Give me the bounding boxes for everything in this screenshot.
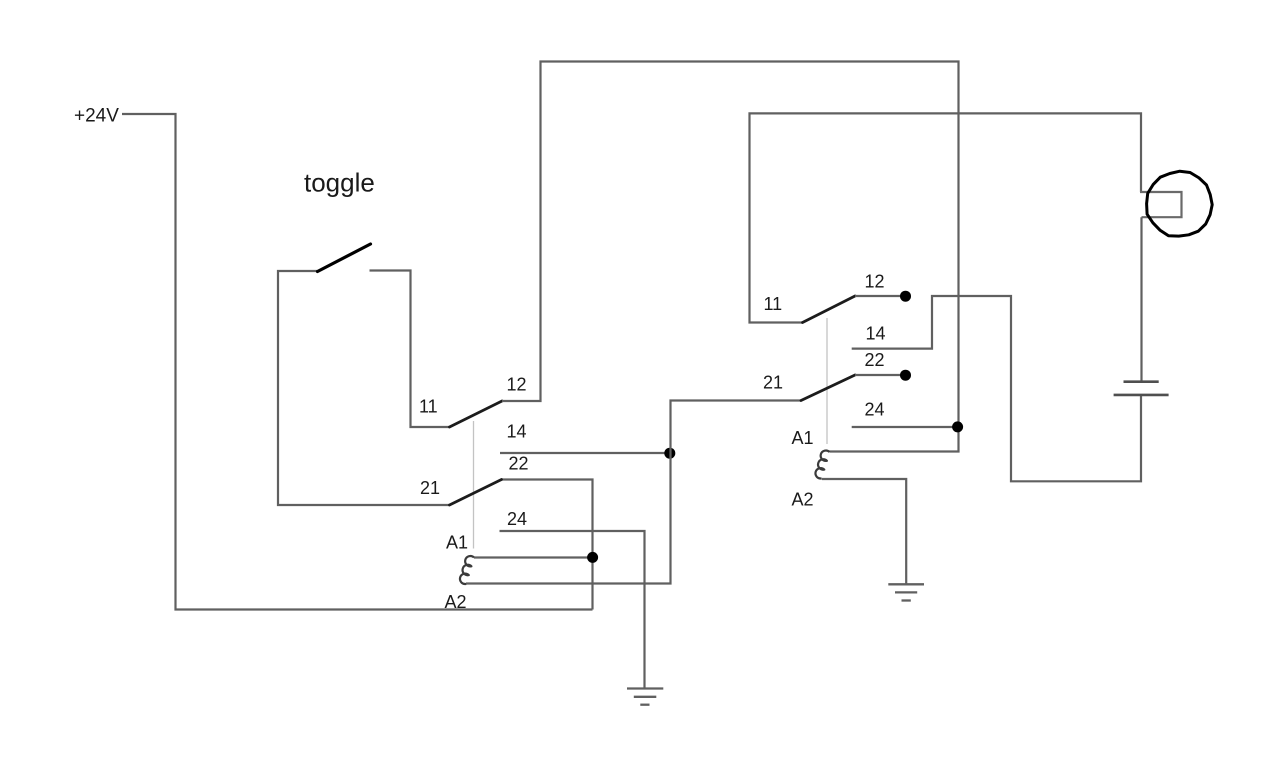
relay K2 contact blade 21-22 — [801, 375, 855, 401]
wire relay K2 pin 11 up and across to lamp — [750, 113, 1142, 322]
svg-text:11: 11 — [419, 397, 438, 417]
wire relay K1 pin 24 down to ground — [500, 531, 645, 688]
contact end dot 22 — [900, 370, 911, 381]
svg-text:24: 24 — [865, 400, 885, 420]
wire lamp bottom to battery positive plate — [1140, 217, 1142, 380]
lamp LA1 base rectangle — [1140, 192, 1182, 217]
svg-text:14: 14 — [507, 422, 527, 442]
wire relay K2 pin 14 around right side to battery bottom — [852, 296, 1141, 481]
wire relay K1 pin 14 to junction — [500, 452, 670, 454]
wire relay K2 pin 12 — [855, 295, 903, 297]
svg-text:A1: A1 — [792, 428, 814, 448]
ground symbol G2 — [888, 584, 924, 600]
junction dot 14 / coil-bottom riser — [664, 448, 675, 459]
wire relay K1 pivot 21 left and up to toggle switch left terminal — [278, 271, 450, 505]
contact end dot 12 — [900, 291, 911, 302]
svg-text:21: 21 — [420, 478, 440, 498]
svg-text:12: 12 — [507, 375, 527, 395]
wire relay K1 coil bottom up to relay K2 pivot 21 — [466, 401, 801, 584]
svg-text:A1: A1 — [446, 533, 468, 553]
svg-text:+24V: +24V — [74, 106, 119, 127]
wire relay K2 pin 24 to junction — [852, 426, 957, 428]
wire toggle switch right terminal down to relay K1 pin 11 — [370, 271, 450, 428]
battery BT1 bottom plate — [1114, 394, 1169, 397]
battery BT1 top plate — [1124, 380, 1159, 383]
svg-text:12: 12 — [865, 272, 885, 292]
wire +24V rail down and across bottom to A2 riser — [122, 114, 593, 610]
switch S1 toggle blade — [318, 244, 371, 272]
ground symbol G1 — [627, 689, 663, 705]
wire riser from A2 rail up to relay K1 contact 22 line — [502, 480, 593, 610]
junction dot 24 / right riser — [952, 421, 963, 432]
svg-text:11: 11 — [764, 294, 783, 314]
svg-text:14: 14 — [866, 324, 886, 344]
relay K2 coil winding — [815, 451, 829, 479]
relay K1 actuator link line — [473, 421, 475, 549]
svg-text:A2: A2 — [792, 490, 814, 510]
wire relay K2 coil A2 bottom to ground — [822, 479, 906, 584]
svg-text:21: 21 — [763, 373, 783, 393]
junction dot coil A1 / 22 riser — [587, 552, 598, 563]
svg-text:toggle: toggle — [304, 168, 375, 198]
svg-text:22: 22 — [509, 454, 529, 474]
lamp LA1 bulb circle — [1147, 171, 1213, 236]
wire relay K2 pin 22 — [855, 374, 903, 376]
wire relay K1 pin 12 up across top and down to relay K2 coil A1 — [502, 62, 959, 452]
svg-text:A2: A2 — [445, 592, 467, 612]
relay K2 actuator link line — [826, 318, 828, 444]
svg-text:22: 22 — [865, 350, 885, 370]
relay K1 contact blade 11-12 — [450, 401, 503, 427]
svg-text:24: 24 — [507, 509, 527, 529]
relay K1 contact blade 21-22 — [450, 480, 502, 506]
relay K1 coil winding — [460, 556, 474, 584]
wire relay K1 coil A1 top — [474, 556, 593, 558]
relay K2 contact blade 11-12 — [803, 296, 856, 323]
